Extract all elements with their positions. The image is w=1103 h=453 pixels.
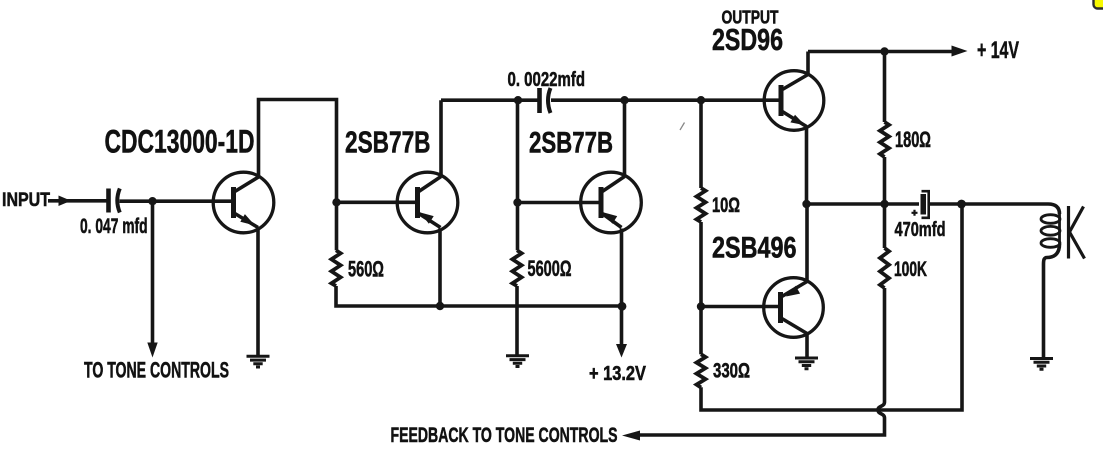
svg-text:+ 14V: + 14V bbox=[977, 37, 1019, 64]
svg-text:100K: 100K bbox=[894, 258, 927, 281]
svg-text:2SB77B: 2SB77B bbox=[529, 127, 613, 160]
svg-text:180Ω: 180Ω bbox=[895, 127, 931, 152]
svg-text:5600Ω: 5600Ω bbox=[528, 256, 572, 281]
svg-text:330Ω: 330Ω bbox=[713, 360, 750, 383]
svg-text:+ 13.2V: + 13.2V bbox=[589, 363, 647, 385]
svg-text:INPUT: INPUT bbox=[2, 190, 50, 211]
svg-text:560Ω: 560Ω bbox=[348, 257, 384, 282]
svg-text:470mfd: 470mfd bbox=[895, 218, 946, 241]
svg-text:2SD96: 2SD96 bbox=[712, 22, 783, 57]
svg-text:TO TONE CONTROLS: TO TONE CONTROLS bbox=[84, 358, 229, 383]
svg-text:CDC13000-1D: CDC13000-1D bbox=[105, 124, 255, 160]
svg-text:FEEDBACK TO TONE CONTROLS: FEEDBACK TO TONE CONTROLS bbox=[391, 424, 618, 447]
svg-text:0. 0022mfd: 0. 0022mfd bbox=[508, 69, 586, 91]
svg-text:2SB77B: 2SB77B bbox=[345, 126, 431, 160]
svg-text:0. 047 mfd: 0. 047 mfd bbox=[80, 214, 148, 238]
svg-text:2SB496: 2SB496 bbox=[712, 232, 797, 265]
svg-text:10Ω: 10Ω bbox=[712, 194, 740, 217]
